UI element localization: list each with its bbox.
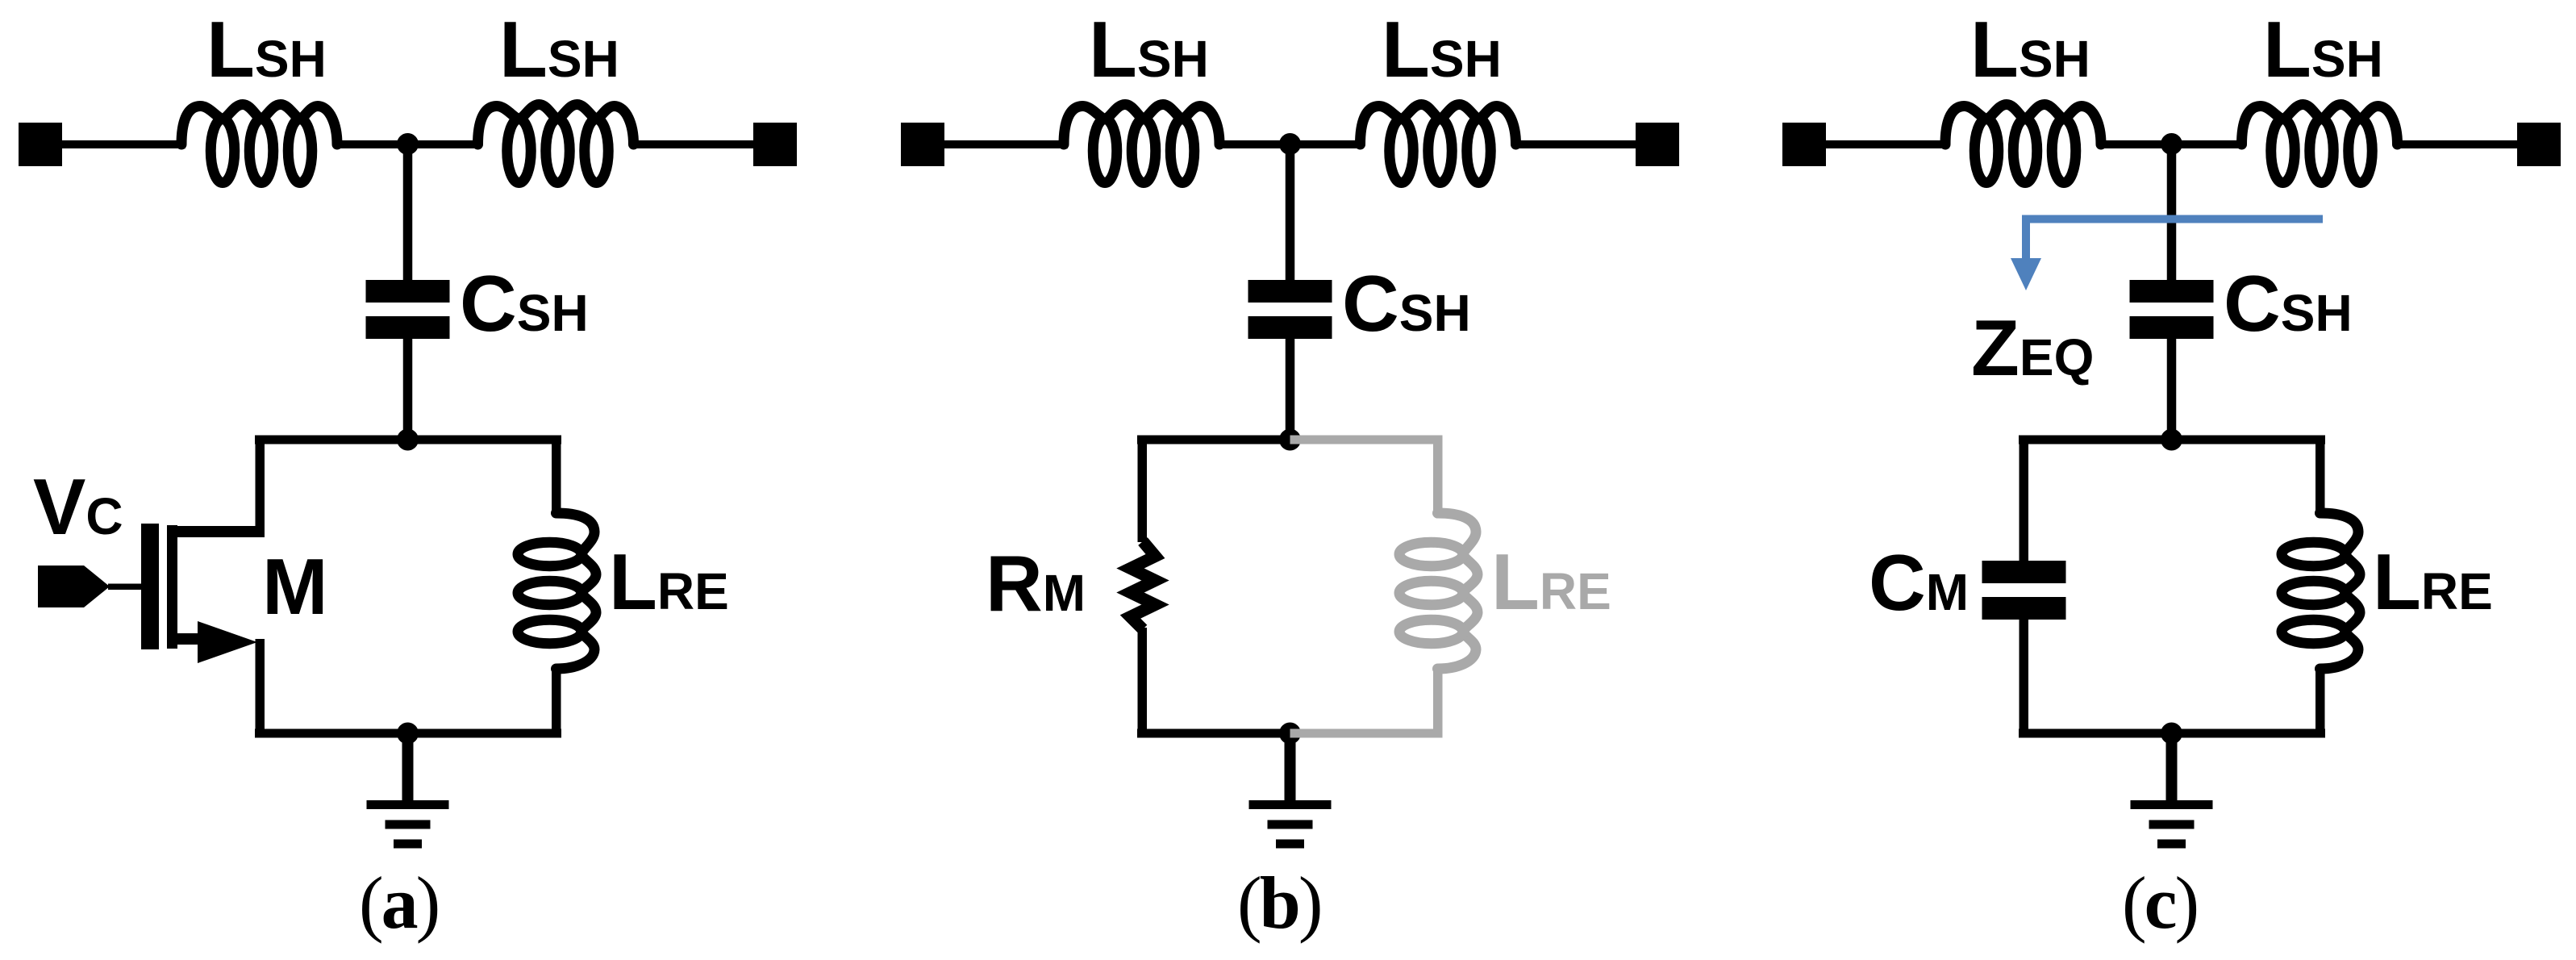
wire node to LSH right (c) <box>2172 140 2245 148</box>
wire box bottom (a) <box>255 729 561 738</box>
transistor M gate bar (a) <box>141 524 159 649</box>
capacitor CSH (a) <box>366 280 450 339</box>
svg-text:CSH: CSH <box>1342 259 1471 348</box>
port right terminal (b) <box>1636 123 1679 166</box>
inductor LRE gray (b) <box>1399 513 1478 669</box>
wire left port to LSH (a) <box>56 140 185 148</box>
node T-junction dot (b) <box>1279 133 1301 155</box>
port left terminal (a) <box>19 123 62 166</box>
port right terminal (c) <box>2517 123 2561 166</box>
junction dot box bottom (c) <box>2161 723 2182 745</box>
wire box bottom black part (b) <box>1137 729 1290 738</box>
impedance ZEQ arrow line (c) <box>2026 219 2323 263</box>
port left terminal (c) <box>1782 123 1826 166</box>
wire box right upper (c) <box>2315 440 2325 515</box>
junction dot box bottom (a) <box>397 723 419 745</box>
svg-text:CSH: CSH <box>2224 259 2353 348</box>
node T-junction dot (c) <box>2161 133 2182 155</box>
wire LSH left to node (c) <box>2099 140 2172 148</box>
wire node down to CSH (c) <box>2167 144 2177 281</box>
port left terminal (b) <box>901 123 944 166</box>
ground (a) <box>367 732 449 849</box>
inductor LRE (c) <box>2282 513 2360 669</box>
junction dot box top (b) <box>1279 429 1301 451</box>
svg-text:CSH: CSH <box>460 259 589 348</box>
wire box top (c) <box>2019 436 2325 445</box>
svg-text:LSH: LSH <box>499 5 619 94</box>
wire CSH down to box top (a) <box>403 339 413 445</box>
wire node to LSH right (b) <box>1290 140 1363 148</box>
inductor LRE (a) <box>518 513 596 669</box>
wire LSH right to right port (a) <box>632 140 757 148</box>
wire box right upper (a) <box>552 440 561 515</box>
wire CM to box bottom (c) <box>2020 617 2029 733</box>
wire source to box bottom (a) <box>256 639 265 733</box>
inductor LSH right (c) <box>2242 105 2398 183</box>
wire box top gray part (b) <box>1290 436 1443 445</box>
transistor M source lead (a) <box>167 633 218 645</box>
wire box bottom gray part (b) <box>1290 729 1443 738</box>
svg-text:(c): (c) <box>2122 862 2197 944</box>
wire box right lower (a) <box>552 667 561 738</box>
svg-text:LRE: LRE <box>2373 537 2493 626</box>
wire box top (a) <box>255 436 561 445</box>
svg-text:LRE: LRE <box>609 537 729 626</box>
wire box top black part (b) <box>1137 436 1290 445</box>
transistor M channel bar (a) <box>167 525 177 649</box>
svg-text:ZEQ: ZEQ <box>1971 303 2094 392</box>
wire box right lower gray (b) <box>1433 667 1443 738</box>
capacitor CM (c) <box>1982 561 2066 620</box>
svg-text:LSH: LSH <box>206 5 327 94</box>
wire node to LSH right (a) <box>408 140 481 148</box>
wire node down to CSH (b) <box>1286 144 1295 281</box>
wire left port to LSH (c) <box>1820 140 1949 148</box>
inductor LSH left (a) <box>181 105 337 183</box>
wire LSH right to right port (c) <box>2396 140 2520 148</box>
capacitor CSH (c) <box>2130 280 2214 339</box>
svg-text:CM: CM <box>1869 538 1969 627</box>
resistor RM zigzag (b) <box>1131 541 1156 629</box>
wire LSH left to node (b) <box>1218 140 1290 148</box>
wire box left upper (c) <box>2020 440 2029 563</box>
transistor M source arrow (a) <box>198 621 257 663</box>
svg-text:LRE: LRE <box>1491 537 1611 626</box>
inductor LSH left (b) <box>1064 105 1219 183</box>
wire box right lower (c) <box>2315 667 2325 738</box>
wire LSH left to node (a) <box>336 140 408 148</box>
junction dot box bottom (b) <box>1279 723 1301 745</box>
wire gate lead (a) <box>108 584 143 591</box>
svg-text:LSH: LSH <box>1970 5 2090 94</box>
transistor M drain lead (a) <box>167 526 265 537</box>
svg-text:RM: RM <box>986 539 1086 628</box>
wire node down to CSH (a) <box>403 144 413 281</box>
node T-junction dot (a) <box>397 133 419 155</box>
svg-text:LSH: LSH <box>1089 5 1209 94</box>
wire box left upper / drain riser (a) <box>256 440 265 537</box>
ground (c) <box>2131 732 2213 849</box>
svg-text:LSH: LSH <box>2263 5 2383 94</box>
inductor LSH right (b) <box>1361 105 1516 183</box>
wire CSH down to box top (c) <box>2167 339 2177 445</box>
wire box right upper gray (b) <box>1433 440 1443 515</box>
junction dot box top (c) <box>2161 429 2182 451</box>
transistor M gate terminal tag (a) <box>38 566 110 607</box>
junction dot box top (a) <box>397 429 419 451</box>
ground (b) <box>1249 732 1332 849</box>
port right terminal (a) <box>753 123 797 166</box>
wire resistor to box bottom (b) <box>1138 628 1148 733</box>
wire LSH right to right port (b) <box>1515 140 1639 148</box>
svg-text:LSH: LSH <box>1382 5 1502 94</box>
wire box bottom (c) <box>2019 729 2325 738</box>
wire box left upper (b) <box>1138 440 1148 542</box>
impedance ZEQ arrowhead (c) <box>2011 258 2041 290</box>
capacitor CSH (b) <box>1248 280 1332 339</box>
inductor LSH right (a) <box>478 105 634 183</box>
wire left port to LSH (b) <box>939 140 1068 148</box>
wire CSH down to box top (b) <box>1286 339 1295 445</box>
svg-text:VC: VC <box>33 462 123 551</box>
svg-text:(b): (b) <box>1237 862 1320 944</box>
inductor LSH left (c) <box>1945 105 2101 183</box>
svg-text:(a): (a) <box>359 862 438 944</box>
svg-text:M: M <box>262 542 328 631</box>
